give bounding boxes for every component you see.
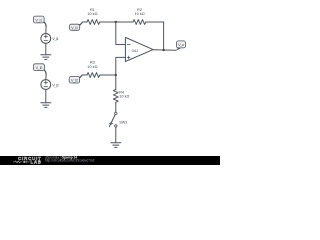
wire node B up to non-inverting input (116, 57, 126, 75)
svg-text:SW1: SW1 (119, 121, 127, 125)
op-amp OA1 (125, 37, 153, 61)
svg-text:10 kΩ: 10 kΩ (87, 65, 97, 69)
flag V_i2 source node label (34, 64, 47, 75)
svg-text:10 kΩ: 10 kΩ (87, 12, 97, 16)
wire node B down to R4 (115, 75, 117, 90)
CircuitLab logo (13, 156, 41, 165)
flag V_o output (176, 41, 185, 50)
wire R2 to feedback corner (146, 21, 164, 23)
wire switch to ground (115, 127, 117, 143)
wire flag to R3 (82, 74, 87, 76)
svg-text:LAB: LAB (31, 160, 42, 165)
wire node A down to inverting input (116, 22, 126, 45)
svg-text:V_i1: V_i1 (52, 36, 59, 41)
switch SW1 (109, 112, 127, 127)
svg-text:V_i2: V_i2 (36, 65, 44, 70)
resistor R4 (113, 90, 129, 103)
wire flag to R1 (82, 21, 87, 23)
node output junction (162, 49, 164, 51)
svg-text:http://circuitlab.com/c/z9zudw: http://circuitlab.com/c/z9zudwc7m2 (45, 159, 95, 163)
svg-text:V_i2: V_i2 (71, 77, 79, 82)
flag V_i1 source node label (34, 16, 47, 26)
node A junction (115, 21, 117, 23)
voltage source V2 (41, 80, 60, 90)
wire op-amp output (153, 49, 176, 52)
svg-text:10 kΩ: 10 kΩ (119, 95, 129, 99)
voltage source V1 (41, 34, 60, 44)
wire R4 to switch (115, 102, 117, 112)
resistor R3 (87, 61, 100, 78)
svg-text:V_i1: V_i1 (71, 25, 79, 30)
node B junction (115, 74, 117, 76)
wire R1 to node A and on to R2 (100, 21, 133, 23)
wire V2 to ground (45, 89, 47, 102)
flag V_i2 at R3 input (69, 75, 82, 83)
svg-text:10 kΩ: 10 kΩ (135, 12, 145, 16)
svg-text:V_i2: V_i2 (52, 82, 59, 87)
wire feedback vertical down to output node (163, 22, 165, 50)
flag V_i1 at R1 input (70, 22, 83, 30)
svg-text:V_o: V_o (178, 42, 185, 47)
wire flag to source V2 (45, 74, 47, 79)
wire R3 to node B (100, 74, 116, 76)
svg-text:OA1: OA1 (132, 49, 139, 53)
svg-text:V_i1: V_i1 (35, 18, 43, 23)
ground (under V1) (41, 55, 51, 60)
ground (under SW1) (111, 143, 121, 148)
wire V1 to ground (45, 43, 47, 54)
footer bar (0, 156, 220, 165)
resistor R2 (133, 8, 146, 24)
ground (under V2) (41, 103, 51, 108)
wire flag to source V1 (45, 27, 47, 34)
resistor R1 (87, 8, 100, 24)
